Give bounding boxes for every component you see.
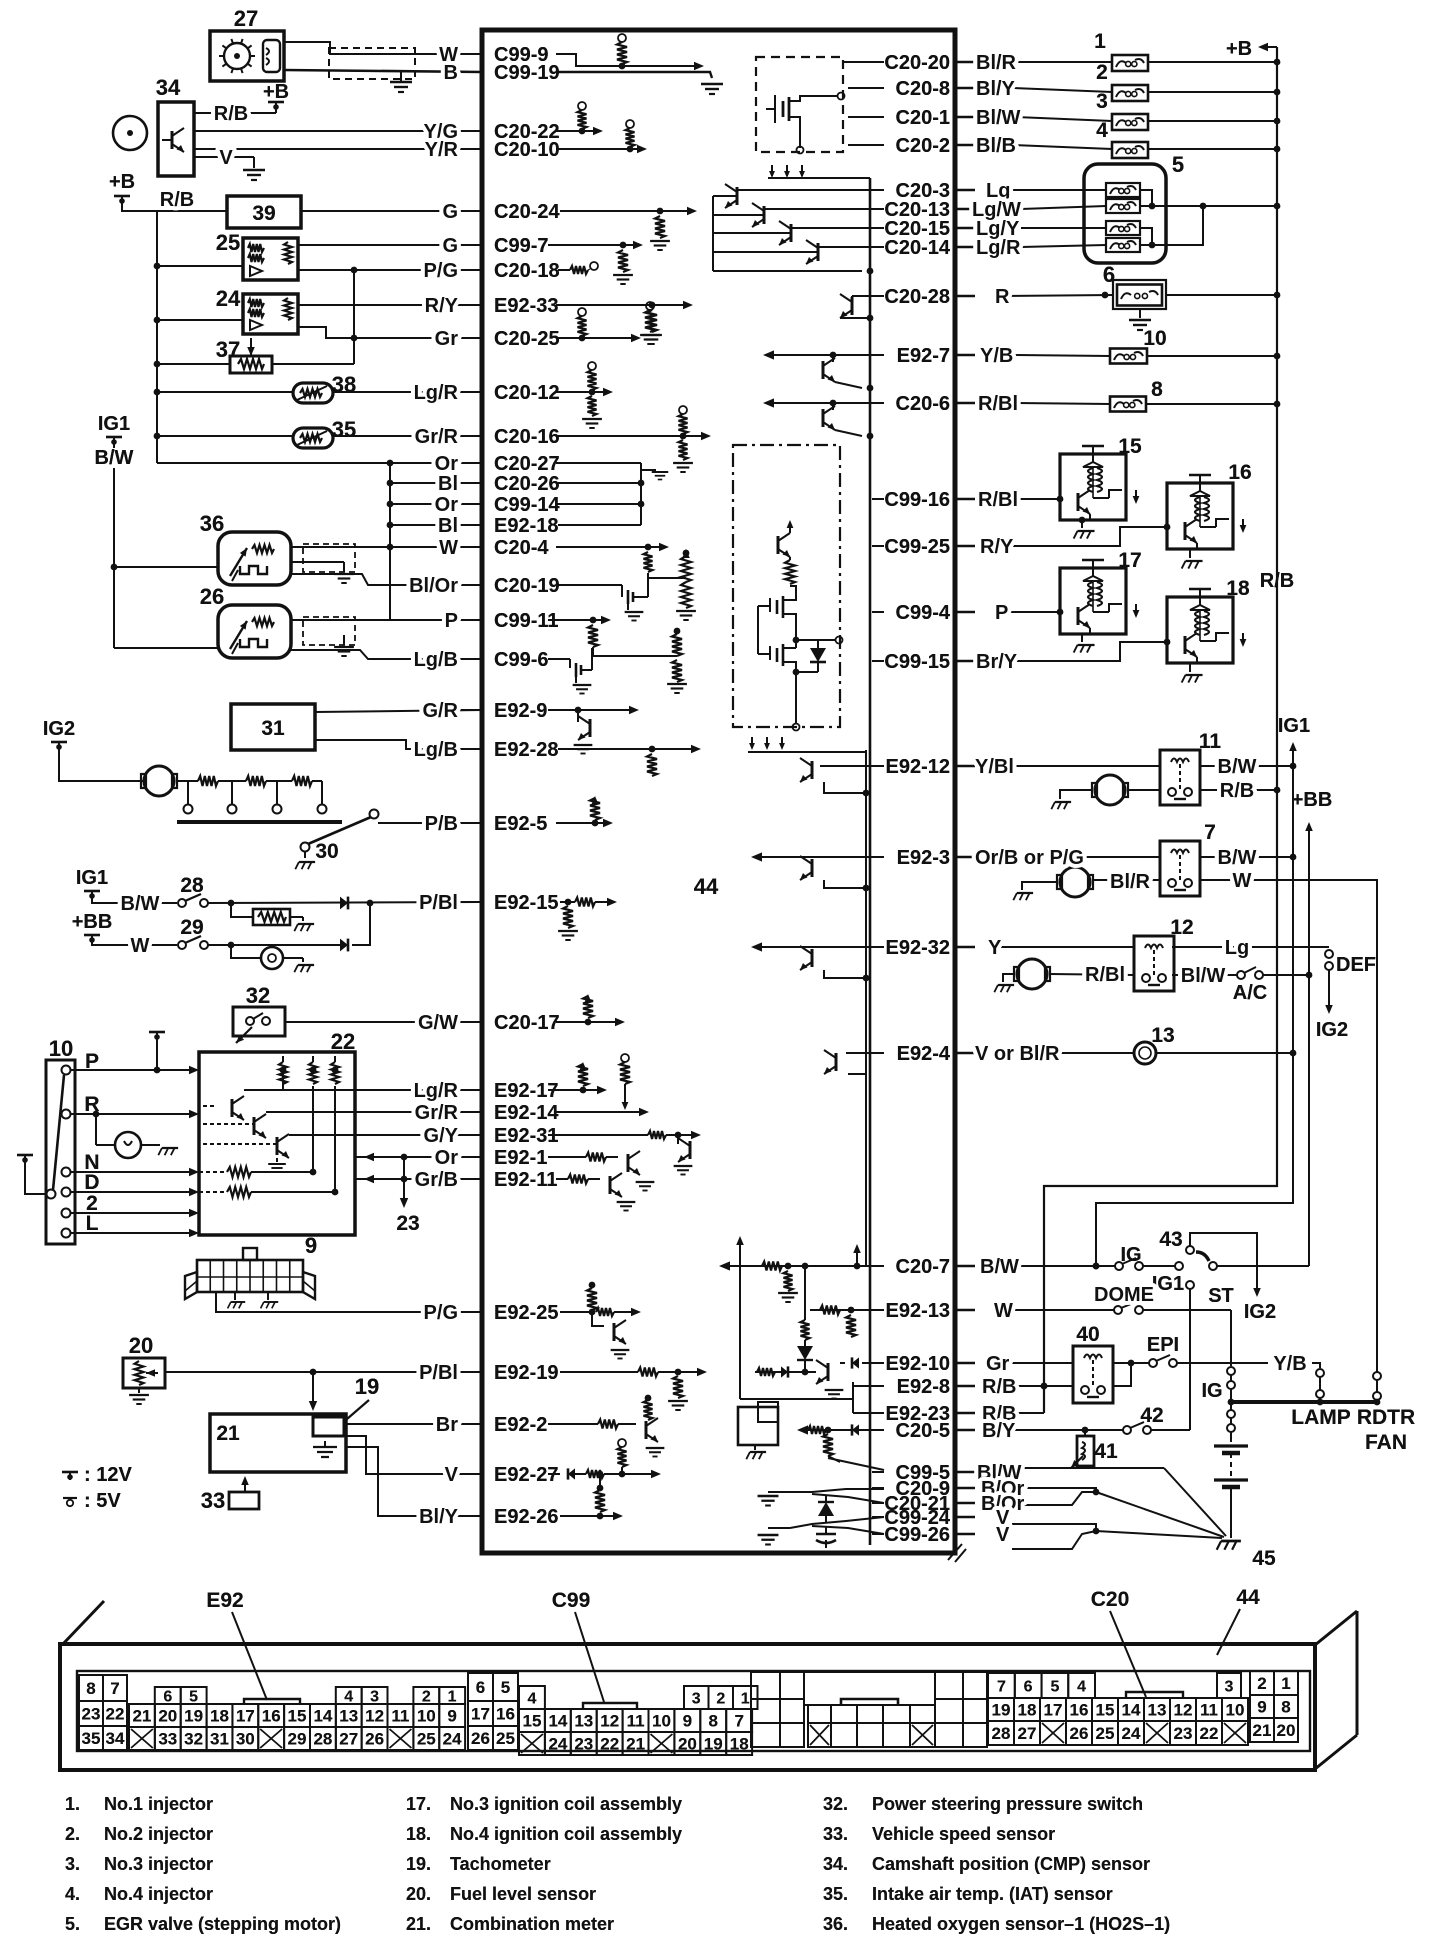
wire B/Or C20-9 xyxy=(1014,1488,1096,1492)
svg-text:25: 25 xyxy=(417,1730,436,1749)
legend 5V symbol xyxy=(63,1497,77,1499)
svg-text:Lg/R: Lg/R xyxy=(976,237,1021,259)
connector 9 grounds xyxy=(234,1292,236,1300)
svg-text:28: 28 xyxy=(992,1724,1011,1743)
pin E92-31 (G/Y) left xyxy=(461,1125,559,1147)
pin C20-25 (Gr) left xyxy=(461,328,560,350)
svg-text:DOME: DOME xyxy=(1094,1284,1154,1306)
svg-text:Or: Or xyxy=(435,453,459,475)
svg-text:32: 32 xyxy=(246,983,270,1008)
C99 main grid xyxy=(519,1686,758,1755)
svg-text:R/B: R/B xyxy=(1220,780,1254,802)
22 N-row resistor xyxy=(199,1171,225,1173)
svg-text:39: 39 xyxy=(252,202,275,225)
21 internal ground xyxy=(324,1441,326,1447)
svg-text:R: R xyxy=(84,1093,99,1116)
svg-text:20: 20 xyxy=(678,1735,697,1754)
interior relay-like box C xyxy=(738,1407,778,1445)
wire B/W to switch 28 xyxy=(120,902,177,904)
wire Bl/Or from 36 to C20-19 xyxy=(291,574,482,585)
ECU bottom-right hatch xyxy=(948,1544,966,1562)
svg-text:R/B: R/B xyxy=(982,1376,1016,1398)
coil 15 ground xyxy=(1081,520,1083,528)
svg-text:C20-20: C20-20 xyxy=(884,52,950,74)
svg-text:17: 17 xyxy=(1118,549,1141,572)
C99 polarity tab xyxy=(583,1703,637,1709)
svg-text:21.: 21. xyxy=(406,1914,431,1934)
gauge on R wire xyxy=(95,1114,97,1145)
svg-text:C99-16: C99-16 xyxy=(884,489,950,511)
A/C switch xyxy=(1237,971,1245,979)
svg-text:P/Bl: P/Bl xyxy=(419,1362,458,1384)
wire B/Y C20-5 to switch 42 xyxy=(1012,1429,1123,1431)
svg-text:C20-25: C20-25 xyxy=(494,328,560,350)
pin E92-23 (R/B) right xyxy=(872,1403,950,1425)
pin C20-19 (Bl/Or) left xyxy=(461,575,560,597)
svg-text:22: 22 xyxy=(106,1705,125,1724)
svg-text:IG: IG xyxy=(1120,1244,1141,1266)
ECU main box 44 xyxy=(482,30,955,1553)
E92-1 interior xyxy=(548,1156,586,1158)
svg-text:Bl: Bl xyxy=(438,473,458,495)
svg-text:+BB: +BB xyxy=(72,911,113,933)
svg-text:C20-8: C20-8 xyxy=(896,78,950,100)
coil 17 ground xyxy=(1081,634,1083,642)
svg-text:Bl/Y: Bl/Y xyxy=(419,1506,459,1528)
svg-text:6: 6 xyxy=(163,1689,172,1706)
svg-text:R: R xyxy=(995,286,1010,308)
pin E92-33 (R/Y) left xyxy=(461,295,559,317)
E92-26 interior xyxy=(560,1515,616,1517)
svg-text:26: 26 xyxy=(200,584,224,609)
svg-text:1: 1 xyxy=(741,1691,750,1708)
thick feed bar xyxy=(1231,1400,1379,1404)
wire Or row C99-14 xyxy=(390,503,482,505)
battery xyxy=(1214,1444,1248,1447)
svg-text:7: 7 xyxy=(734,1712,743,1731)
wire bus to 25 xyxy=(157,265,243,267)
svg-text:30: 30 xyxy=(315,840,338,863)
+B rail vertical xyxy=(1044,47,1277,1413)
B/W vertical wire xyxy=(113,468,115,648)
pin E92-32 (Y) right xyxy=(872,937,950,959)
svg-text:B/W: B/W xyxy=(980,1256,1019,1278)
E92-13 interior xyxy=(810,1309,884,1311)
svg-text:32: 32 xyxy=(184,1730,203,1749)
selector lever xyxy=(53,1075,64,1190)
svg-text:C20-24: C20-24 xyxy=(494,201,560,223)
svg-text:EGR valve (stepping motor): EGR valve (stepping motor) xyxy=(104,1914,341,1934)
wire W from 36 to C20-4 xyxy=(291,546,482,548)
svg-text:17: 17 xyxy=(1044,1701,1063,1720)
box B resistor xyxy=(785,560,795,584)
svg-text:W: W xyxy=(1233,870,1252,892)
relay 7 W output xyxy=(1200,880,1377,1372)
svg-text:FAN: FAN xyxy=(1365,1431,1407,1454)
box B diode xyxy=(817,640,819,648)
connector 10 contacts xyxy=(62,1066,71,1075)
stub C20-2 xyxy=(848,144,884,146)
zener and capacitor xyxy=(825,1496,827,1502)
DEF connector circles xyxy=(1325,950,1333,958)
svg-text:10: 10 xyxy=(417,1707,436,1726)
C20-4 interior xyxy=(556,546,662,548)
pin E92-15 (P/Bl) left xyxy=(461,892,559,914)
svg-text:Bl/B: Bl/B xyxy=(976,135,1016,157)
pin C20-22 (Y/G) left xyxy=(461,121,560,143)
svg-text:9: 9 xyxy=(1257,1698,1266,1717)
pin C20-2 (Bl/B) right xyxy=(872,135,950,157)
svg-text:5.: 5. xyxy=(65,1914,80,1934)
svg-text:2: 2 xyxy=(716,1691,725,1708)
svg-text:6: 6 xyxy=(1103,262,1115,287)
svg-text:E92-7: E92-7 xyxy=(897,345,950,367)
svg-text:5: 5 xyxy=(189,1689,198,1706)
svg-text:Tachometer: Tachometer xyxy=(450,1854,551,1874)
E92-33 interior xyxy=(556,304,686,306)
wire Y E92-32 to 12 xyxy=(1000,946,1134,948)
svg-text:43: 43 xyxy=(1159,1228,1182,1251)
wire P from 26 to C99-11 xyxy=(291,619,482,621)
svg-text:13: 13 xyxy=(574,1712,593,1731)
svg-text:25: 25 xyxy=(216,230,240,255)
wire bus to 35 xyxy=(157,435,293,437)
wire G from 25 to C99-7 xyxy=(298,244,482,246)
svg-text:14: 14 xyxy=(1122,1701,1141,1720)
wire B/W C20-7 to IG switch xyxy=(1012,1265,1115,1267)
svg-text:23: 23 xyxy=(82,1705,101,1724)
E92-31 interior xyxy=(548,1134,648,1136)
svg-text:Bl/W: Bl/W xyxy=(1181,965,1226,987)
svg-text:12: 12 xyxy=(365,1707,384,1726)
svg-text:IG1: IG1 xyxy=(1152,1273,1184,1295)
IG2 arrow below 43 xyxy=(1256,1266,1258,1292)
svg-text:C20-27: C20-27 xyxy=(494,453,560,475)
svg-text:G: G xyxy=(442,201,458,223)
lamp on 29 branch xyxy=(231,945,261,958)
svg-text:B/W: B/W xyxy=(1218,847,1257,869)
pin E92-25 (P/G) left xyxy=(461,1302,559,1324)
inner face rect xyxy=(77,1671,1310,1751)
svg-text:4: 4 xyxy=(528,1691,537,1708)
pin E92-10 (Gr) right xyxy=(872,1353,950,1375)
pin E92-7 (Y/B) right xyxy=(872,345,950,367)
svg-text:18: 18 xyxy=(1018,1701,1037,1720)
svg-text:V: V xyxy=(996,1524,1010,1546)
svg-text:Y/B: Y/B xyxy=(980,345,1013,367)
svg-text:45: 45 xyxy=(1252,1547,1276,1570)
E92-9 interior xyxy=(548,709,632,711)
E92 main grid xyxy=(129,1687,465,1750)
wire EPI to Y/B xyxy=(1177,1362,1268,1364)
svg-text:10: 10 xyxy=(1226,1701,1245,1720)
pin C99-9 (W) left xyxy=(461,44,548,66)
svg-text:E92-13: E92-13 xyxy=(886,1300,951,1322)
svg-text:+B: +B xyxy=(109,171,135,193)
wire Y/R row xyxy=(194,148,482,150)
svg-text:Bl/Or: Bl/Or xyxy=(409,575,458,597)
wire R/B E92-23 jog xyxy=(1012,1412,1044,1414)
ECU connector face 44 outer box xyxy=(60,1644,1315,1770)
E92-4 interior transistor xyxy=(846,1052,884,1054)
32 strike arrow xyxy=(236,1027,252,1043)
svg-text:30: 30 xyxy=(236,1730,255,1749)
pin C20-12 (Lg/R) left xyxy=(461,382,560,404)
svg-text:9: 9 xyxy=(683,1712,692,1731)
pin E92-28 (Lg/B) left xyxy=(461,739,559,761)
pin C99-14 (Or) left xyxy=(461,494,560,516)
svg-text:Or/B or P/G: Or/B or P/G xyxy=(975,847,1084,869)
pin E92-13 (W) right xyxy=(872,1300,950,1322)
C99-11 interior xyxy=(548,619,604,621)
svg-text:20.: 20. xyxy=(406,1884,431,1904)
svg-text:C99-15: C99-15 xyxy=(884,651,950,673)
svg-text:34: 34 xyxy=(106,1729,125,1748)
svg-text:RDTR: RDTR xyxy=(1357,1406,1415,1429)
pin E92-2 (Br) left xyxy=(461,1414,547,1436)
svg-text:C20-5: C20-5 xyxy=(896,1420,950,1442)
PNP cascade for C20-3/13/15/14 xyxy=(712,196,714,271)
svg-text:6: 6 xyxy=(476,1678,485,1697)
svg-text:C99-14: C99-14 xyxy=(494,494,560,516)
wire W from 27 to C99-9 xyxy=(284,42,482,54)
svg-text:Bl/Y: Bl/Y xyxy=(976,78,1016,100)
component 21 combination meter box xyxy=(210,1414,346,1472)
main motor (pump) xyxy=(1060,867,1090,897)
12V feed into 22 xyxy=(149,1031,165,1034)
svg-text:: 12V: : 12V xyxy=(84,1464,132,1486)
svg-text:B/W: B/W xyxy=(1218,756,1257,778)
wire Br/Y C99-15 to 18 xyxy=(1016,642,1167,661)
feedback wire x354 xyxy=(353,270,355,338)
svg-text:1: 1 xyxy=(1094,30,1106,53)
svg-text:Gr/B: Gr/B xyxy=(415,1169,458,1191)
svg-text:G: G xyxy=(442,235,458,257)
svg-text:2.: 2. xyxy=(65,1824,80,1844)
pin C20-28 (R) right xyxy=(872,286,950,308)
svg-text:8: 8 xyxy=(1151,378,1163,401)
svg-text:13: 13 xyxy=(1148,1701,1167,1720)
coil 18 ground xyxy=(1189,663,1191,672)
svg-text:C99-6: C99-6 xyxy=(494,649,548,671)
svg-text:Br: Br xyxy=(436,1414,458,1436)
wires from sensors to ground 45 (diagonal fan) xyxy=(1164,1468,1226,1536)
svg-text:C20-19: C20-19 xyxy=(494,575,560,597)
svg-text:B/Y: B/Y xyxy=(982,1420,1016,1442)
EGR coil b xyxy=(1106,199,1140,213)
svg-text:2: 2 xyxy=(422,1689,431,1706)
svg-text:P: P xyxy=(445,610,458,632)
component 34 CMP sensor box xyxy=(158,102,194,176)
coil 16 ground xyxy=(1189,549,1191,558)
pin C20-4 (W) left xyxy=(461,537,549,559)
wire G/W to C20-17 xyxy=(285,1021,482,1023)
svg-text:6: 6 xyxy=(1024,1679,1033,1696)
wire to diode 29 xyxy=(208,944,340,946)
svg-text:33: 33 xyxy=(201,1488,225,1513)
pin C20-15 (Lg/Y) right xyxy=(872,218,950,240)
svg-text:4.: 4. xyxy=(65,1884,80,1904)
relay 7 B/W to IG1 xyxy=(1200,856,1293,858)
svg-text:P/G: P/G xyxy=(424,1302,458,1324)
wire bus to 38 xyxy=(157,391,293,393)
pin C20-7 (B/W) right xyxy=(872,1256,950,1278)
svg-text:E92: E92 xyxy=(206,1589,243,1612)
22 D-row resistor xyxy=(199,1191,225,1193)
svg-text:13: 13 xyxy=(1151,1024,1174,1047)
svg-text:25: 25 xyxy=(1096,1724,1115,1743)
svg-text:41: 41 xyxy=(1094,1440,1118,1463)
svg-text:Or: Or xyxy=(435,1147,459,1169)
wire R/B 34 xyxy=(194,112,254,114)
svg-text:ST: ST xyxy=(1208,1285,1234,1307)
svg-text:No.4 injector: No.4 injector xyxy=(104,1884,213,1904)
svg-text:E92-15: E92-15 xyxy=(494,892,559,914)
svg-text:17.: 17. xyxy=(406,1794,431,1814)
arrow from P/Bl junction into 21 xyxy=(312,1372,314,1405)
svg-text:35: 35 xyxy=(332,417,356,442)
svg-text:36: 36 xyxy=(200,511,224,536)
svg-text:R/B: R/B xyxy=(160,189,194,211)
wire Or/B E92-3 to 7 xyxy=(1078,856,1160,858)
svg-text:8: 8 xyxy=(86,1679,95,1698)
throttle slider bar xyxy=(177,820,342,824)
C20-12 interior xyxy=(556,391,606,393)
svg-text:Or: Or xyxy=(435,494,459,516)
svg-text:Bl/W: Bl/W xyxy=(976,107,1021,129)
svg-text:37: 37 xyxy=(216,337,240,362)
36 shield ground xyxy=(291,561,344,563)
svg-text:19: 19 xyxy=(184,1707,203,1726)
pin C20-20 (Bl/R) right xyxy=(872,52,950,74)
C99-7 interior xyxy=(548,244,636,246)
svg-text:14: 14 xyxy=(548,1712,567,1731)
svg-text:2: 2 xyxy=(1096,61,1108,84)
svg-text:3: 3 xyxy=(1096,90,1108,113)
svg-text:9: 9 xyxy=(305,1233,317,1258)
relay 11 B/W to IG1 xyxy=(1200,765,1293,767)
wire R/B E92-8 to relay 40 contacts xyxy=(1012,1385,1073,1387)
interior bus x641 for Or/Bl rows xyxy=(556,462,641,464)
svg-text:L: L xyxy=(86,1212,99,1235)
svg-text:10: 10 xyxy=(49,1036,73,1061)
svg-text:E92-33: E92-33 xyxy=(494,295,559,317)
wire P/B to E92-5 xyxy=(378,822,482,824)
wire bus to 24 xyxy=(157,319,243,321)
pin E92-12 (Y/Bl) right xyxy=(872,756,950,778)
E92-5 interior xyxy=(556,822,606,824)
svg-text:20: 20 xyxy=(129,1333,153,1358)
mosfet in dashed box A xyxy=(766,93,845,154)
svg-text:Gr: Gr xyxy=(986,1353,1010,1375)
svg-text:E92-9: E92-9 xyxy=(494,700,547,722)
interior dash-dot box B xyxy=(733,445,840,727)
C20-19 interior mosfet xyxy=(558,584,622,586)
svg-text:P/G: P/G xyxy=(424,260,458,282)
pin C20-17 (G/W) left xyxy=(461,1012,560,1034)
wire to diode xyxy=(208,902,482,903)
svg-text:P/Bl: P/Bl xyxy=(419,892,458,914)
svg-text:8: 8 xyxy=(708,1712,717,1731)
svg-text:E92-8: E92-8 xyxy=(897,1376,950,1398)
svg-text:22: 22 xyxy=(1200,1724,1219,1743)
stub C20-20 xyxy=(843,61,884,63)
C20-17 interior xyxy=(556,1021,618,1023)
svg-text:35.: 35. xyxy=(823,1884,848,1904)
svg-text:R/B: R/B xyxy=(214,103,248,125)
E92-32 interior xyxy=(758,946,884,948)
pin C99-25 (R/Y) right xyxy=(872,536,950,558)
svg-text:2: 2 xyxy=(1257,1674,1266,1693)
component 19 box xyxy=(313,1417,344,1436)
svg-text:Y/B: Y/B xyxy=(1273,1353,1306,1375)
svg-text:C20-10: C20-10 xyxy=(494,139,560,161)
RDTR fan feed connectors xyxy=(1373,1372,1381,1380)
middle blank cells xyxy=(751,1672,987,1747)
svg-text:28: 28 xyxy=(180,874,204,897)
ground 45 xyxy=(1217,1541,1241,1550)
wire Bl/Y from 21 to E92-26 xyxy=(346,1447,482,1516)
svg-text:C99: C99 xyxy=(552,1589,591,1612)
svg-text:11: 11 xyxy=(627,1712,645,1731)
wire 36 left to B/W bus xyxy=(114,566,218,568)
svg-text:3: 3 xyxy=(1225,1679,1234,1696)
svg-text:11: 11 xyxy=(391,1707,409,1726)
wire G/R from 31 to E92-9 xyxy=(315,710,482,712)
svg-text:21: 21 xyxy=(1253,1721,1272,1740)
relay 12 Lg to DEF xyxy=(1172,946,1329,948)
C99 corner cells xyxy=(468,1673,518,1750)
svg-text:23: 23 xyxy=(1174,1724,1193,1743)
wire Lg/B from 31 to E92-28 xyxy=(315,740,482,749)
wire V C99-26 xyxy=(1012,1531,1096,1549)
svg-text:29: 29 xyxy=(180,916,203,939)
EGR coil d xyxy=(1106,238,1140,252)
svg-text:17: 17 xyxy=(236,1707,255,1726)
C20-16 interior xyxy=(556,435,704,437)
svg-text:1: 1 xyxy=(1281,1674,1290,1693)
svg-text:8: 8 xyxy=(1281,1698,1290,1717)
svg-text:C99-19: C99-19 xyxy=(494,62,560,84)
svg-text:IG2: IG2 xyxy=(1244,1301,1276,1323)
svg-text:10: 10 xyxy=(1143,327,1166,350)
A/C motor xyxy=(1017,959,1047,989)
svg-text:G/Y: G/Y xyxy=(424,1125,459,1147)
diode on B/W line xyxy=(340,897,348,910)
wire R/Y from 24 to E92-33 xyxy=(298,304,482,306)
E92-10 interior xyxy=(862,1362,884,1364)
svg-text:R/Y: R/Y xyxy=(425,295,459,317)
pin C20-16 (Gr/R) left xyxy=(461,426,560,448)
svg-text:+BB: +BB xyxy=(1292,789,1333,811)
wire G from 39 to C20-24 xyxy=(301,210,482,212)
wire 26 left to B/W bus xyxy=(114,647,218,649)
wire R/Bl C99-16 to 15 xyxy=(1016,498,1060,500)
pin E92-5 (P/B) left xyxy=(461,813,547,835)
svg-text:R/Y: R/Y xyxy=(980,536,1014,558)
svg-text:44: 44 xyxy=(1236,1586,1260,1609)
svg-text:Power steering pressure switch: Power steering pressure switch xyxy=(872,1794,1143,1814)
svg-text:C20-28: C20-28 xyxy=(884,286,950,308)
wire R/Y C99-25 to 16 xyxy=(1012,527,1167,546)
svg-text:C99-7: C99-7 xyxy=(494,235,548,257)
svg-text:+B: +B xyxy=(1226,38,1252,60)
wire bus to 37 xyxy=(157,363,230,365)
svg-text:20: 20 xyxy=(158,1707,177,1726)
wire Br from 19 to E92-2 xyxy=(344,1423,482,1425)
svg-text:E92-32: E92-32 xyxy=(886,937,951,959)
svg-text:32.: 32. xyxy=(823,1794,848,1814)
